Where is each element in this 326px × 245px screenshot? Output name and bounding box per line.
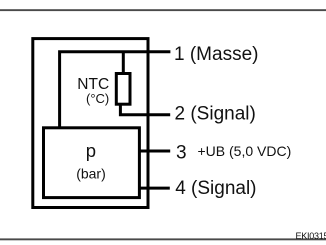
svg-text:3: 3 [176, 142, 187, 163]
svg-text:+UB (5,0 VDC): +UB (5,0 VDC) [198, 143, 292, 159]
svg-text:EKI0315: EKI0315 [296, 231, 326, 241]
sensor housing outer box [33, 39, 148, 208]
wire pin 4 [139, 187, 169, 190]
bottom rule [0, 238, 326, 240]
wire pin 3 [139, 150, 170, 153]
svg-text:(bar): (bar) [76, 166, 106, 182]
svg-text:1 (Masse): 1 (Masse) [174, 44, 258, 65]
resistor NTC [116, 74, 130, 105]
svg-text:4 (Signal): 4 (Signal) [175, 178, 256, 199]
wire: NTC top branch [122, 52, 125, 74]
wire: pin 1 Masse bus [60, 52, 171, 128]
wire: NTC bottom to pin 2 [120, 104, 170, 115]
svg-text:p: p [86, 140, 96, 161]
svg-text:2 (Signal): 2 (Signal) [175, 104, 256, 125]
svg-text:(°C): (°C) [86, 91, 109, 106]
top rule [0, 9, 326, 11]
pressure sensor p box [44, 128, 140, 198]
